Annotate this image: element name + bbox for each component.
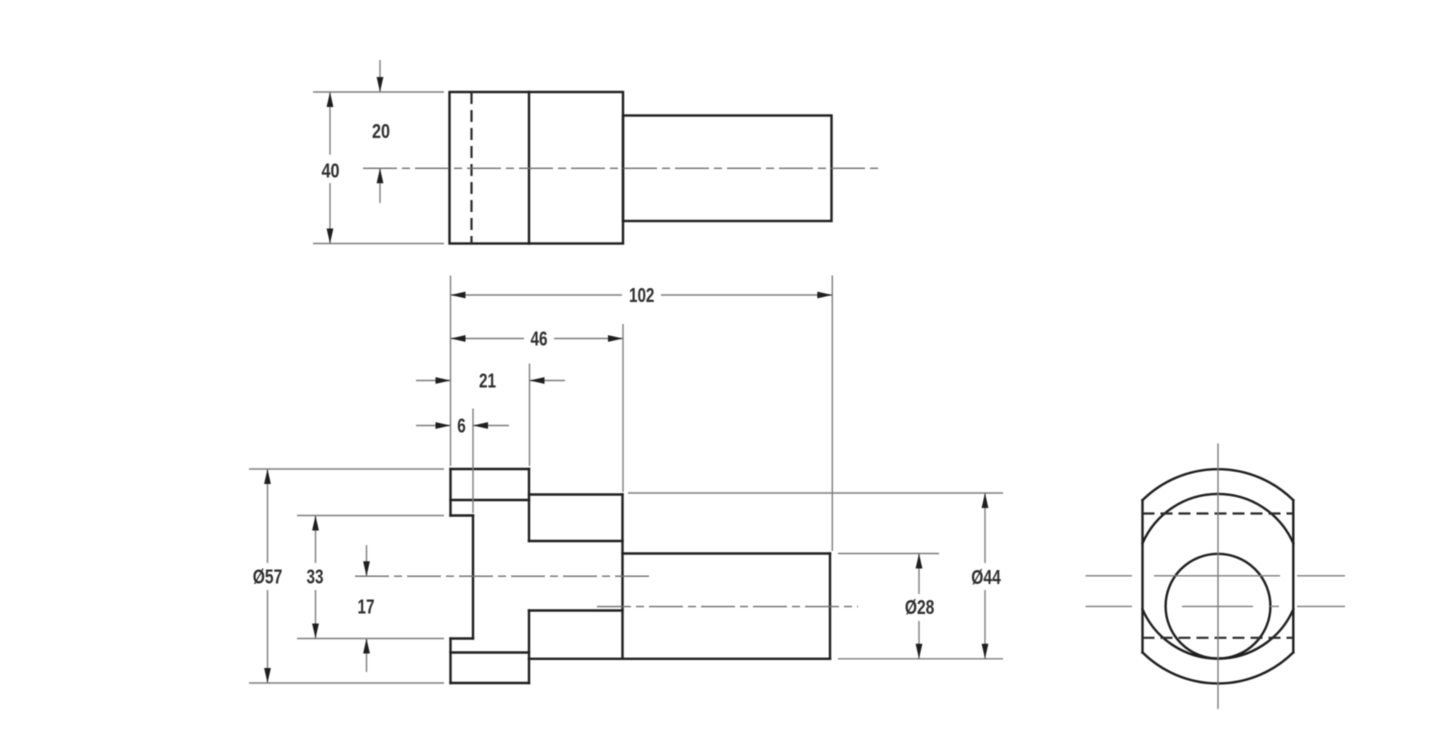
mid section flat edge bottom (529, 609, 623, 611)
flange top edge (diam 57) (451, 468, 530, 470)
dimension 17 upper arrow (points down to centerline) (366, 545, 368, 576)
extension line diam57 top (249, 468, 444, 470)
extension line diam28 top (838, 553, 939, 555)
svg-text:20: 20 (372, 121, 390, 143)
svg-text:21: 21 (479, 371, 496, 393)
slot lower step (451, 637, 474, 639)
svg-text:Ø28: Ø28 (905, 597, 935, 619)
svg-text:46: 46 (531, 329, 548, 351)
flange bottom flat intersection line (451, 651, 530, 653)
dimension diam28 line with arrows (918, 554, 920, 595)
end view right flat edge (1292, 500, 1294, 652)
top view shaft rectangle (diam 28) (623, 116, 832, 222)
dimension diam44 line with arrows (984, 493, 986, 563)
extension line slot bottom (297, 638, 444, 640)
flange left face lower (449, 639, 451, 684)
front view shaft centerline (597, 606, 858, 608)
dimension 20 upper arrow (points down to top edge) (379, 60, 381, 92)
dimension 102 line with arrows (451, 294, 623, 296)
extension line left at 0 (450, 276, 452, 467)
flange right face lower segment (528, 611, 530, 684)
svg-text:6: 6 (457, 416, 466, 438)
svg-text:40: 40 (322, 161, 340, 183)
top view extension line bottom for dim 40 (313, 243, 444, 245)
extension line at 6 (472, 409, 474, 514)
top view body rectangle (46x40 flat section) (450, 92, 624, 244)
extension line at 21 (529, 364, 531, 467)
svg-text:Ø44: Ø44 (971, 567, 1001, 589)
extension line at 46 (622, 324, 624, 492)
end view main horizontal centerline (1086, 575, 1133, 577)
dimension 17 lower arrow (points up to slot bottom) (366, 639, 368, 673)
top view horizontal centerline (363, 167, 880, 169)
flange right face upper segment (528, 469, 530, 541)
end view diam44 bottom arc (1143, 609, 1294, 658)
mid section top edge (diam 44) (529, 493, 623, 495)
dimension 40 line with arrows (329, 92, 331, 155)
end view left flat edge (1141, 500, 1143, 652)
svg-text:17: 17 (358, 597, 375, 619)
end view shaft horizontal centerline (1086, 605, 1133, 607)
dimension 6 left arrow (points right to 0) (416, 425, 451, 427)
end view outer diam57 top arc (1143, 469, 1294, 500)
end view hidden slot top edge (1143, 512, 1294, 514)
flange left face upper (449, 469, 451, 516)
extension line shared bottom (838, 658, 1003, 660)
svg-text:102: 102 (629, 285, 655, 307)
flange bottom edge (diam 57) (451, 682, 530, 684)
dimension 21 right arrow (points left to 21) (530, 380, 566, 382)
dimension 20 lower arrow (points up to centerline) (379, 168, 381, 203)
svg-text:Ø57: Ø57 (253, 566, 283, 588)
dimension diam57 line with arrows (267, 469, 269, 563)
end view outer diam57 bottom arc (1143, 652, 1294, 683)
extension line diam44 top (628, 492, 1003, 494)
end view shaft circle diam28 (1166, 554, 1271, 659)
end view diam44 top arc (1143, 494, 1294, 543)
top view step line at 21 (528, 92, 530, 244)
flange top flat intersection line (451, 499, 530, 501)
step face at 46 (621, 495, 623, 659)
slot bottom face (472, 516, 474, 639)
dimension 33 line with arrows (315, 516, 317, 564)
svg-text:33: 33 (307, 567, 324, 589)
mid section flat edge top (529, 540, 623, 542)
mid section bottom edge and shaft bottom (diam 44 / 28) (529, 658, 830, 660)
end view hidden slot bottom edge (1143, 637, 1294, 639)
dimension 46 line with arrows (451, 338, 525, 340)
dimension 21 left arrow (points right to 0) (416, 380, 451, 382)
front view main centerline (355, 575, 653, 577)
shaft end face (829, 554, 831, 659)
extension line diam57 bottom (249, 682, 444, 684)
top view extension line top for dim 40 (313, 91, 444, 93)
extension line slot top (297, 515, 444, 517)
top view hidden line: slot bottom at 6 (470, 92, 472, 244)
slot upper step (451, 514, 474, 516)
end view vertical centerline (1217, 444, 1219, 710)
extension line right at 102 (831, 276, 833, 552)
dimension 6 right arrow (points left to 6) (473, 425, 509, 427)
shaft top edge (diam 28) (623, 552, 831, 554)
